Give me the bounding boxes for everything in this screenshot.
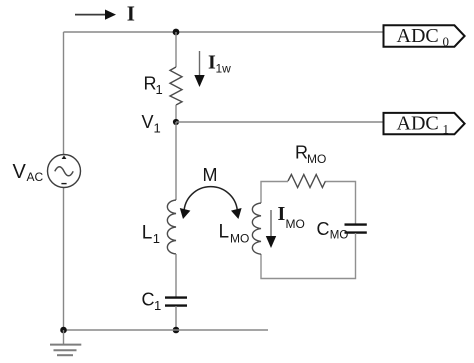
- capacitor C1: [165, 298, 187, 306]
- current arrow I: [75, 10, 116, 20]
- secondary loop wire left edge top: [261, 182, 288, 204]
- label IMO: [278, 203, 305, 231]
- svg-text:ADC: ADC: [397, 113, 439, 135]
- wire ground stem: [63, 330, 65, 344]
- wire left vertical top segment: [63, 32, 65, 155]
- label CMO: [317, 219, 349, 242]
- wire branch below L1: [175, 254, 177, 297]
- capacitor CMO: [345, 225, 367, 233]
- node bottom junction: [173, 327, 180, 334]
- current arrow IMO: [266, 210, 276, 248]
- svg-text:1: 1: [153, 231, 160, 246]
- svg-text:I: I: [278, 203, 286, 225]
- label C1: [142, 290, 162, 314]
- label I1w: [208, 52, 231, 76]
- node V1: [173, 119, 179, 125]
- svg-text:C: C: [142, 290, 155, 310]
- svg-text:1: 1: [443, 122, 450, 137]
- svg-text:AC: AC: [27, 170, 44, 184]
- ADC1 block: [384, 113, 465, 137]
- node ground junction: [60, 327, 67, 334]
- svg-text:0: 0: [443, 34, 450, 49]
- mutual inductance arrow M: [180, 187, 242, 219]
- node top junction: [173, 29, 180, 36]
- wire top horizontal: [64, 31, 384, 33]
- resistor R1: [170, 67, 182, 105]
- label VAC: [13, 161, 44, 184]
- svg-text:MO: MO: [307, 152, 326, 166]
- svg-text:V: V: [142, 112, 154, 132]
- label L1: [142, 223, 160, 246]
- secondary loop wire right edge bottom: [261, 233, 356, 279]
- svg-text:I: I: [127, 2, 135, 26]
- voltage source VAC: [48, 155, 81, 188]
- label LMO: [219, 222, 250, 246]
- svg-text:1: 1: [154, 298, 161, 313]
- inductor L1: [167, 200, 176, 254]
- svg-text:MO: MO: [286, 217, 305, 231]
- wire left vertical bottom segment: [63, 188, 65, 330]
- wire branch V1 to L1: [175, 122, 177, 200]
- wire branch below R1: [175, 105, 177, 122]
- wire bottom horizontal: [64, 329, 269, 331]
- label R1: [144, 74, 163, 98]
- svg-text:MO: MO: [330, 230, 349, 242]
- wire branch below C1: [175, 306, 177, 330]
- svg-text:MO: MO: [230, 231, 249, 245]
- svg-text:1: 1: [154, 121, 161, 136]
- wire V1 to ADC1: [176, 121, 384, 123]
- svg-text:1: 1: [156, 82, 163, 97]
- wire branch above R1: [175, 32, 177, 67]
- svg-text:1w: 1w: [216, 62, 232, 76]
- ground: [50, 345, 81, 356]
- secondary loop wire top right: [326, 182, 356, 225]
- inductor LMO: [252, 203, 261, 254]
- svg-text:C: C: [317, 219, 330, 239]
- label V1: [142, 112, 161, 136]
- svg-text:L: L: [219, 222, 230, 243]
- ADC0 block: [384, 25, 465, 49]
- svg-text:L: L: [142, 223, 153, 244]
- svg-text:M: M: [203, 165, 218, 185]
- svg-text:V: V: [13, 161, 27, 183]
- svg-text:ADC: ADC: [397, 25, 439, 47]
- current arrow I1w: [194, 51, 204, 87]
- resistor RMO: [288, 175, 326, 188]
- label RMO: [295, 143, 326, 166]
